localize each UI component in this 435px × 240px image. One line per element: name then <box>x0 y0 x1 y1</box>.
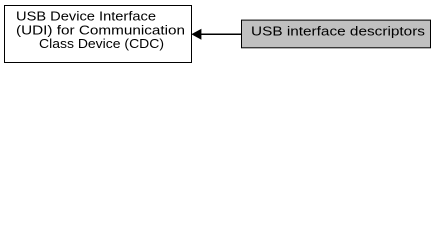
svg-text:USB Device Interface: USB Device Interface <box>16 8 156 23</box>
svg-text:USB interface descriptors: USB interface descriptors <box>251 23 426 38</box>
svg-text:Class Device (CDC): Class Device (CDC) <box>39 36 164 51</box>
